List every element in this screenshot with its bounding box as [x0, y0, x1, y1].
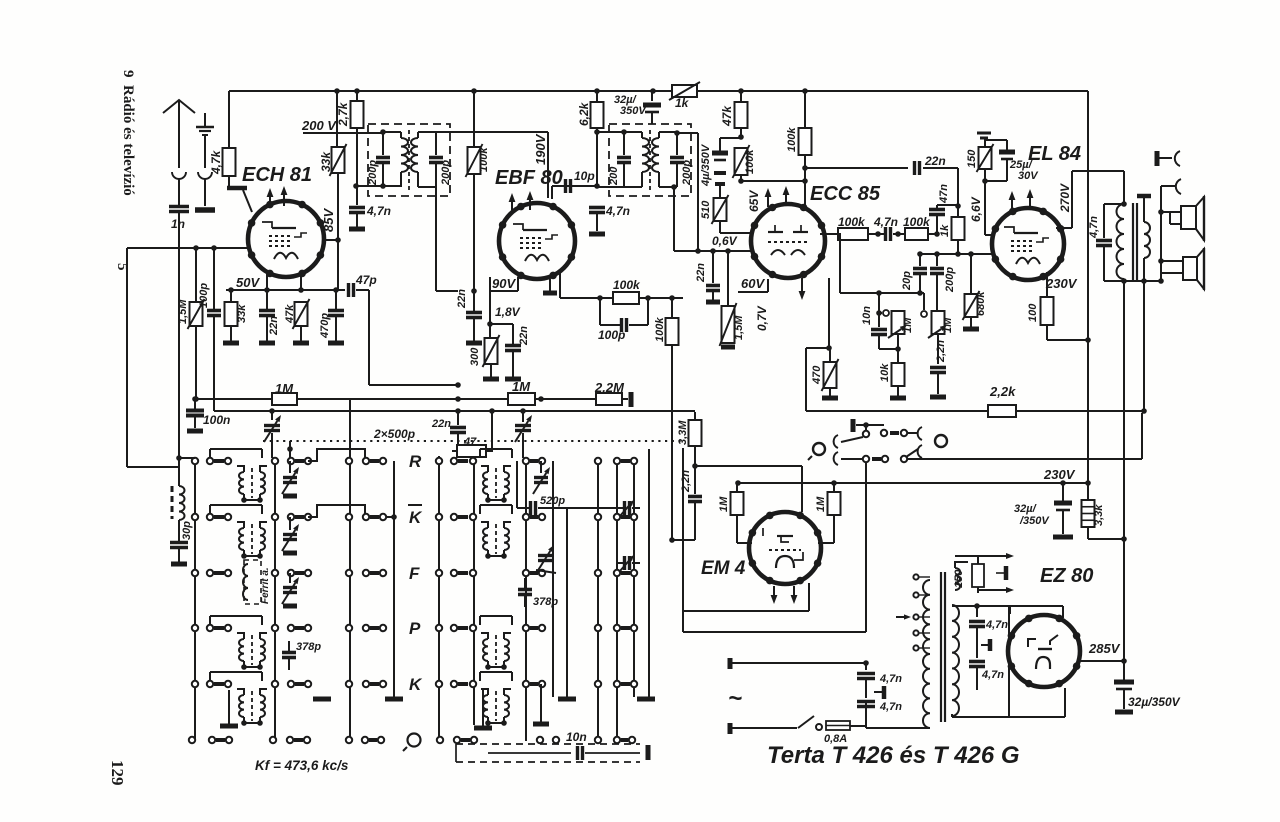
label 22n: [518, 326, 530, 346]
capacitor 10n: [578, 746, 583, 760]
terminal bar: [629, 392, 634, 407]
label EL 84: [1028, 143, 1081, 165]
capacitor 200p: [930, 254, 944, 311]
label 0,8A: [824, 733, 847, 745]
earth electrode: [196, 113, 214, 168]
label 4,7n: [879, 673, 902, 685]
svg-text:Kf = 473,6 kc/s: Kf = 473,6 kc/s: [255, 758, 349, 773]
svg-text:4,7n: 4,7n: [985, 619, 1008, 631]
capacitor 22n: [505, 346, 521, 378]
wire 285V: [1080, 539, 1127, 664]
label 680k: [975, 291, 987, 316]
tube EBF80: [499, 203, 575, 279]
resistor 47k: [293, 299, 310, 329]
svg-text:6,2k: 6,2k: [577, 101, 591, 126]
label R: [409, 452, 422, 471]
title Terta: [767, 742, 1020, 769]
svg-text:1,5M: 1,5M: [733, 315, 745, 340]
svg-text:1M: 1M: [512, 379, 531, 394]
svg-text:350V: 350V: [620, 105, 647, 117]
label 3,3M: [677, 420, 689, 445]
cathode arrow ECC85: [799, 278, 806, 300]
label 47: [463, 436, 477, 448]
label 0,6V: [712, 234, 738, 248]
wire column: [525, 460, 527, 741]
earth plug hook: [198, 172, 212, 206]
wire: [480, 505, 512, 514]
svg-text:F: F: [409, 564, 420, 583]
resistor 10k: [892, 349, 905, 386]
label 100k: [478, 147, 490, 172]
wire AVC bus: [214, 410, 695, 412]
wire column: [633, 460, 635, 697]
node: [471, 288, 477, 294]
wire: [560, 272, 613, 301]
ground: [223, 326, 239, 343]
label 2x500p: [373, 427, 415, 441]
mains terminal: [728, 658, 733, 669]
label 10n: [861, 306, 873, 325]
label ~: [728, 685, 742, 712]
earth terminal bar: [195, 207, 215, 213]
wire anode EL84: [1056, 171, 1127, 228]
wire: [1047, 325, 1091, 343]
svg-text:2×500p: 2×500p: [373, 427, 415, 441]
capacitor 4,7n: [886, 227, 891, 241]
band coil 2: [237, 522, 267, 559]
label 47k: [284, 304, 296, 324]
capacitor 22n: [915, 161, 920, 175]
heater arrows EL84: [1009, 189, 1034, 210]
wire: [594, 129, 627, 135]
capacitor 32u/350V: [1114, 661, 1134, 709]
switch row P contacts: [192, 625, 386, 631]
wire: [210, 672, 262, 681]
switch row F contacts: [192, 570, 386, 576]
label 470: [811, 365, 823, 385]
capacitor 200p: [670, 133, 684, 187]
band coil 5: [237, 689, 267, 726]
resistor 1M: [508, 393, 535, 405]
wire: [826, 278, 832, 351]
label 1k: [939, 224, 951, 237]
wire: [337, 240, 339, 290]
svg-text:470: 470: [811, 365, 823, 385]
svg-text:0,6V: 0,6V: [712, 234, 738, 248]
switch row R right contacts: [436, 458, 637, 464]
svg-text:47p: 47p: [355, 273, 377, 287]
resistor 1M: [731, 483, 753, 543]
band coil 9: [481, 689, 511, 726]
ground: [930, 395, 946, 400]
label 1M: [718, 496, 730, 512]
wire IF1 bottom: [353, 183, 401, 189]
svg-text:680k: 680k: [975, 291, 987, 316]
svg-text:470p: 470p: [319, 313, 331, 339]
svg-text:4,7n: 4,7n: [879, 673, 902, 685]
svg-text:230V: 230V: [1045, 276, 1078, 291]
wire: [741, 181, 805, 208]
svg-text:4,7n: 4,7n: [879, 701, 902, 713]
resistor 100k: [613, 292, 639, 304]
wire IF1 sec top: [436, 132, 548, 198]
resistor 100k: [799, 91, 812, 184]
label 6,6V: [969, 196, 983, 222]
capacitor 100p: [207, 245, 221, 411]
ground: [533, 684, 655, 724]
label 20p: [901, 271, 913, 291]
ground: [721, 345, 735, 350]
tube EL84: [992, 208, 1065, 281]
label 1,5M: [733, 315, 745, 340]
wire: [308, 505, 365, 517]
resistor 2,7k: [351, 91, 364, 186]
svg-text:3,3k: 3,3k: [1093, 504, 1105, 526]
ground: [890, 386, 906, 398]
svg-text:33k: 33k: [319, 151, 333, 172]
ground: [822, 388, 838, 398]
capacitor 378p: [518, 578, 532, 607]
capacitor 378p: [282, 641, 296, 670]
ground: [385, 514, 403, 699]
svg-text:4,7n: 4,7n: [873, 215, 898, 229]
wire: [985, 181, 993, 235]
heater arrows EM4: [771, 586, 798, 604]
top bus wire: [229, 90, 1088, 92]
label 4,7n: [981, 669, 1004, 681]
wire B+ down: [1123, 281, 1125, 539]
svg-text:EL 84: EL 84: [1028, 143, 1081, 165]
capacitor 10p: [552, 179, 597, 199]
node: [334, 88, 808, 94]
wire: [228, 176, 230, 190]
capacitor 200p: [376, 132, 390, 187]
resistor 1k: [952, 206, 965, 257]
resistor 3,3k: [1082, 484, 1127, 542]
svg-text:2,2n: 2,2n: [935, 340, 947, 363]
wire: [937, 205, 958, 208]
wire: [923, 168, 961, 209]
speaker 1: [1161, 196, 1204, 241]
svg-text:Ferrit a.: Ferrit a.: [260, 567, 271, 604]
svg-text:/350V: /350V: [1019, 515, 1050, 527]
capacitor 32u/350V: [1054, 483, 1072, 534]
cathode stub: [543, 279, 557, 293]
wire: [913, 727, 930, 729]
label 1M: [512, 379, 531, 394]
svg-text:4,7n: 4,7n: [1088, 216, 1100, 239]
svg-text:100p: 100p: [198, 283, 210, 308]
svg-text:30V: 30V: [1018, 170, 1039, 182]
label 4,7n: [879, 701, 902, 713]
ground: [1115, 710, 1133, 715]
svg-text:100k: 100k: [903, 215, 931, 229]
wire: [920, 293, 924, 310]
trimmer: [536, 545, 556, 573]
label 2,2n: [935, 340, 947, 363]
dotted gang link: [263, 440, 685, 442]
svg-text:32µ/: 32µ/: [1014, 503, 1038, 515]
capacitor 4,7n: [857, 702, 875, 729]
svg-text:EM 4: EM 4: [701, 558, 746, 579]
ground: [963, 327, 979, 332]
label 4,7n: [1088, 216, 1100, 239]
ground: [706, 300, 720, 305]
label 378p: [533, 596, 558, 608]
wire: [840, 233, 923, 296]
pot slider: [921, 311, 927, 317]
svg-text:4,7n: 4,7n: [366, 204, 391, 218]
svg-text:4µ/350V: 4µ/350V: [700, 143, 712, 187]
svg-text:270V: 270V: [1058, 183, 1072, 213]
capacitor 2,2n: [930, 334, 946, 394]
resistor 100k: [666, 298, 679, 345]
label 4,7n: [873, 215, 898, 229]
ground: [505, 377, 521, 382]
hook contact: [834, 452, 862, 465]
potentiometer 1M: [928, 311, 947, 338]
label 47k: [720, 105, 734, 127]
resistor 1,5M: [720, 251, 737, 346]
label 85V: [321, 208, 336, 232]
node: [176, 455, 195, 461]
wire main vertical: [1087, 91, 1089, 484]
svg-text:22n: 22n: [456, 289, 468, 309]
capacitor 22n: [466, 313, 482, 342]
resistor 33k: [330, 91, 347, 240]
switch arm: [834, 425, 870, 448]
svg-text:378p: 378p: [533, 596, 558, 608]
wire: [210, 616, 262, 625]
svg-text:1k: 1k: [675, 96, 690, 110]
svg-text:47k: 47k: [284, 304, 296, 324]
wire: [730, 727, 797, 729]
svg-text:1M: 1M: [275, 381, 294, 396]
ground: [466, 341, 482, 346]
label 2,2k: [989, 384, 1016, 399]
svg-text:~: ~: [728, 685, 742, 712]
label 32u/350V: [614, 94, 647, 117]
capacitor 4,7n: [589, 208, 605, 232]
label 200 V: [301, 118, 337, 133]
node: [868, 231, 884, 237]
wire antenna down: [178, 212, 180, 458]
resistor 100: [1041, 297, 1054, 325]
wire AVC down: [671, 345, 673, 540]
label 32u/350V: [1128, 695, 1181, 709]
label 1M: [942, 317, 954, 333]
label K: [409, 508, 423, 527]
wire: [1104, 258, 1147, 411]
band coil 8: [481, 633, 511, 670]
resistor 470: [822, 348, 839, 391]
speaker 2: [1161, 248, 1204, 290]
band coil 7: [481, 522, 511, 559]
band coil 6: [481, 466, 511, 503]
label 25u/30V: [1009, 159, 1039, 182]
wire tube left: [127, 248, 249, 467]
svg-text:4,7n: 4,7n: [605, 204, 630, 218]
resistor 100k: [838, 228, 868, 240]
svg-text:200p: 200p: [367, 160, 379, 186]
label 47p: [355, 273, 377, 287]
svg-text:100n: 100n: [203, 413, 230, 427]
wire: [639, 295, 683, 301]
wire: [1161, 212, 1170, 224]
switch row K right contacts: [436, 514, 637, 520]
capacitor 200p: [429, 132, 443, 187]
label EBF 80: [495, 167, 563, 189]
wire: [228, 91, 230, 148]
resistor 680k: [963, 254, 980, 327]
svg-text:100k: 100k: [478, 147, 490, 172]
heater arrows EBF80: [509, 191, 534, 212]
page header text: [120, 70, 136, 196]
wire filament: [952, 688, 1065, 717]
resistor 33k: [225, 290, 238, 326]
wire switch feed: [907, 413, 1142, 459]
svg-text:2,2n: 2,2n: [680, 470, 692, 493]
capacitor 2,2n: [688, 466, 702, 540]
tube EM4: [749, 512, 822, 585]
svg-text:1M: 1M: [815, 496, 827, 512]
tuning gang section 2: [515, 408, 532, 458]
label 32u/350V: [1014, 503, 1050, 527]
capacitor 4,7n: [969, 606, 985, 658]
wire column: [648, 449, 650, 697]
contact: [881, 430, 907, 436]
wire grid row: [820, 233, 838, 235]
label 10n: [566, 730, 587, 744]
capacitor 470p: [328, 290, 344, 341]
label 1k: [675, 96, 690, 110]
label K bar: [408, 504, 422, 506]
label 150: [953, 569, 965, 588]
svg-text:510: 510: [700, 200, 712, 219]
svg-text:100: 100: [1027, 303, 1039, 322]
svg-text:10p: 10p: [574, 169, 595, 183]
label Kf: [255, 758, 349, 773]
label 4,7n: [605, 204, 630, 218]
wire column: [473, 456, 475, 725]
capacitor 4,7n: [349, 186, 365, 213]
capacitor 25u/30V: [985, 140, 1015, 181]
wire: [879, 348, 898, 350]
svg-text:1M: 1M: [902, 317, 914, 333]
IF1 primary coil: [383, 132, 408, 187]
chassis stub: [981, 639, 990, 651]
wire: [287, 441, 365, 461]
wire: [480, 616, 512, 625]
label 200p: [681, 160, 693, 186]
antenna coil: [172, 458, 185, 520]
wire 22n row: [802, 165, 908, 171]
svg-text:10n: 10n: [861, 306, 873, 325]
ground: [328, 341, 344, 346]
resistor 100k: [733, 145, 750, 184]
svg-text:100k: 100k: [786, 127, 798, 152]
ferrite coil: [243, 560, 261, 604]
wire: [1104, 203, 1124, 205]
label 285V: [1088, 641, 1121, 656]
resistor 1k: [669, 82, 700, 100]
svg-text:0,7V: 0,7V: [755, 305, 769, 331]
ground: [483, 364, 499, 379]
label 300: [469, 347, 481, 366]
phone jack 1: [1157, 151, 1180, 166]
svg-text:200p: 200p: [440, 160, 452, 186]
transformer core: [941, 572, 945, 722]
tuning gang section 1: [264, 408, 281, 458]
IF2 core: [649, 130, 651, 190]
phone jack 2: [1161, 179, 1181, 281]
heater arrow: [978, 587, 1014, 593]
wire: [487, 277, 513, 344]
wire HT top: [952, 603, 1063, 618]
ground: [474, 690, 492, 728]
capacitor 32u/350V top: [643, 91, 661, 124]
svg-text:1,8V: 1,8V: [495, 305, 521, 319]
resistor 47k: [735, 91, 748, 140]
contact: [901, 445, 922, 462]
svg-text:200p: 200p: [681, 160, 693, 186]
chassis bar: [996, 566, 1006, 580]
wire: [695, 466, 802, 512]
svg-text:100k: 100k: [838, 215, 866, 229]
wire IF2 sec bottom: [659, 184, 677, 251]
label 100p: [598, 328, 625, 342]
svg-text:50V: 50V: [236, 275, 260, 290]
svg-text:60V: 60V: [741, 276, 765, 291]
ground: [589, 232, 605, 237]
wire column: [349, 399, 351, 740]
svg-text:22n: 22n: [268, 316, 280, 336]
wire IF2 bottom: [594, 183, 642, 189]
wire: [866, 726, 913, 728]
svg-text:47n: 47n: [938, 184, 950, 204]
wire: [480, 672, 512, 681]
label 22n: [268, 316, 280, 336]
label 100k: [838, 215, 866, 229]
label 100k: [744, 149, 756, 174]
resistor 1,5M: [188, 245, 205, 402]
pot slider: [879, 310, 889, 316]
page number 5: [114, 263, 130, 271]
svg-text:20p: 20p: [901, 271, 913, 291]
label 2,7k: [336, 101, 350, 127]
capacitor 4,7n: [969, 662, 985, 691]
label 1,8V: [495, 305, 521, 319]
svg-text:65V: 65V: [747, 190, 761, 212]
label 4,7n: [366, 204, 391, 218]
label P: [409, 619, 421, 638]
capacitor 22n: [450, 408, 466, 451]
svg-text:1M: 1M: [942, 317, 954, 333]
wire pin stubs: [267, 272, 301, 290]
IF1 secondary coil: [411, 132, 436, 187]
svg-text:1k: 1k: [939, 224, 951, 237]
capacitor 10n: [871, 313, 887, 349]
wire 1M bus: [192, 396, 628, 402]
wire y254: [917, 251, 993, 257]
svg-text:9 Rádió és televízió: 9 Rádió és televízió: [120, 70, 136, 196]
hook contact: [907, 427, 922, 440]
resistor 1M: [818, 483, 841, 543]
label 33k: [236, 304, 248, 323]
svg-text:100k: 100k: [654, 317, 666, 342]
switch row K contacts: [192, 681, 386, 687]
label 100k: [903, 215, 931, 229]
